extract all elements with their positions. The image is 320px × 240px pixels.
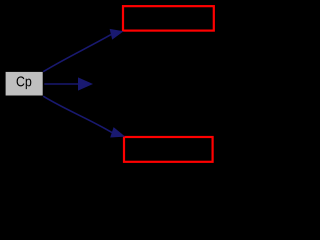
label "Cp"	[17, 76, 32, 89]
edge Cp to middle hidden node (arrow)	[44, 77, 93, 90]
edge Cp to bottom-right node (arrow)	[43, 96, 125, 137]
node Cp (current node, grey filled box)	[6, 72, 43, 96]
node top-right (truncated node, red box)	[123, 6, 214, 30]
node bottom-right (truncated node, red box)	[124, 137, 213, 162]
edge Cp to top-right node (arrow)	[43, 29, 123, 72]
